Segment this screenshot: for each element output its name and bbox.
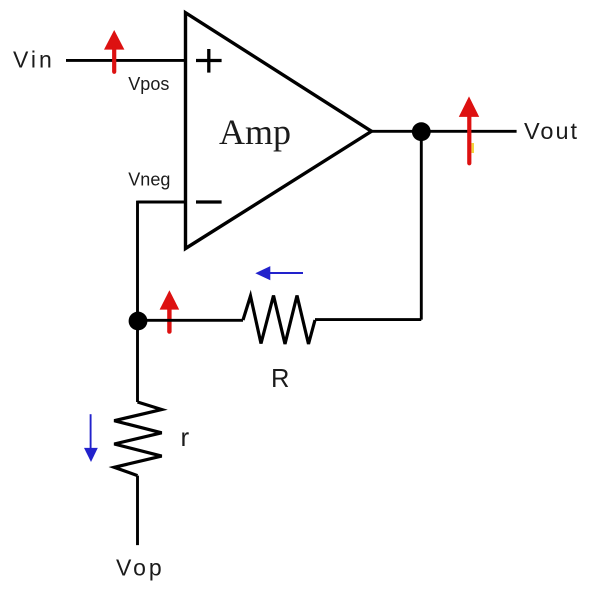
wire Vin to + input xyxy=(66,59,186,62)
wire op-amp output to Vout xyxy=(372,130,517,133)
wire minus input horizontal xyxy=(138,201,186,204)
svg-text:Vneg: Vneg xyxy=(128,169,170,189)
current arrow (red, up) at node A xyxy=(160,290,180,331)
svg-text:Vop: Vop xyxy=(116,555,165,581)
svg-text:Vin: Vin xyxy=(13,47,55,73)
op-amp minus input symbol xyxy=(196,200,222,203)
node A junction dot xyxy=(129,312,148,331)
wire feedback riser vertical up to output node xyxy=(420,132,423,320)
wire node A to resistor R xyxy=(138,319,243,322)
svg-text:r: r xyxy=(181,422,190,452)
op-amp U1 triangle xyxy=(186,13,372,249)
wire node A down to resistor r xyxy=(136,321,139,402)
yellow caret artifact near Vout arrow xyxy=(472,143,475,153)
current arrow (blue, down) beside resistor r xyxy=(84,414,98,462)
current arrow (blue, left) above resistor R xyxy=(255,266,303,280)
current arrow (red, up) on Vin wire xyxy=(104,30,124,72)
svg-text:Amp: Amp xyxy=(219,112,291,152)
wire resistor r to Vop xyxy=(136,476,139,545)
current arrow (red, up) on Vout wire xyxy=(459,96,479,163)
svg-text:Vpos: Vpos xyxy=(128,74,169,94)
resistor R zigzag xyxy=(243,296,315,345)
svg-text:Vout: Vout xyxy=(524,118,579,144)
node B output junction dot xyxy=(412,122,431,141)
op-amp plus input symbol xyxy=(196,49,222,73)
svg-text:R: R xyxy=(271,365,289,393)
resistor r vertical zigzag xyxy=(114,402,162,476)
wire vertical from minus input down to node A xyxy=(136,201,139,321)
wire resistor R to feedback riser xyxy=(315,318,421,321)
